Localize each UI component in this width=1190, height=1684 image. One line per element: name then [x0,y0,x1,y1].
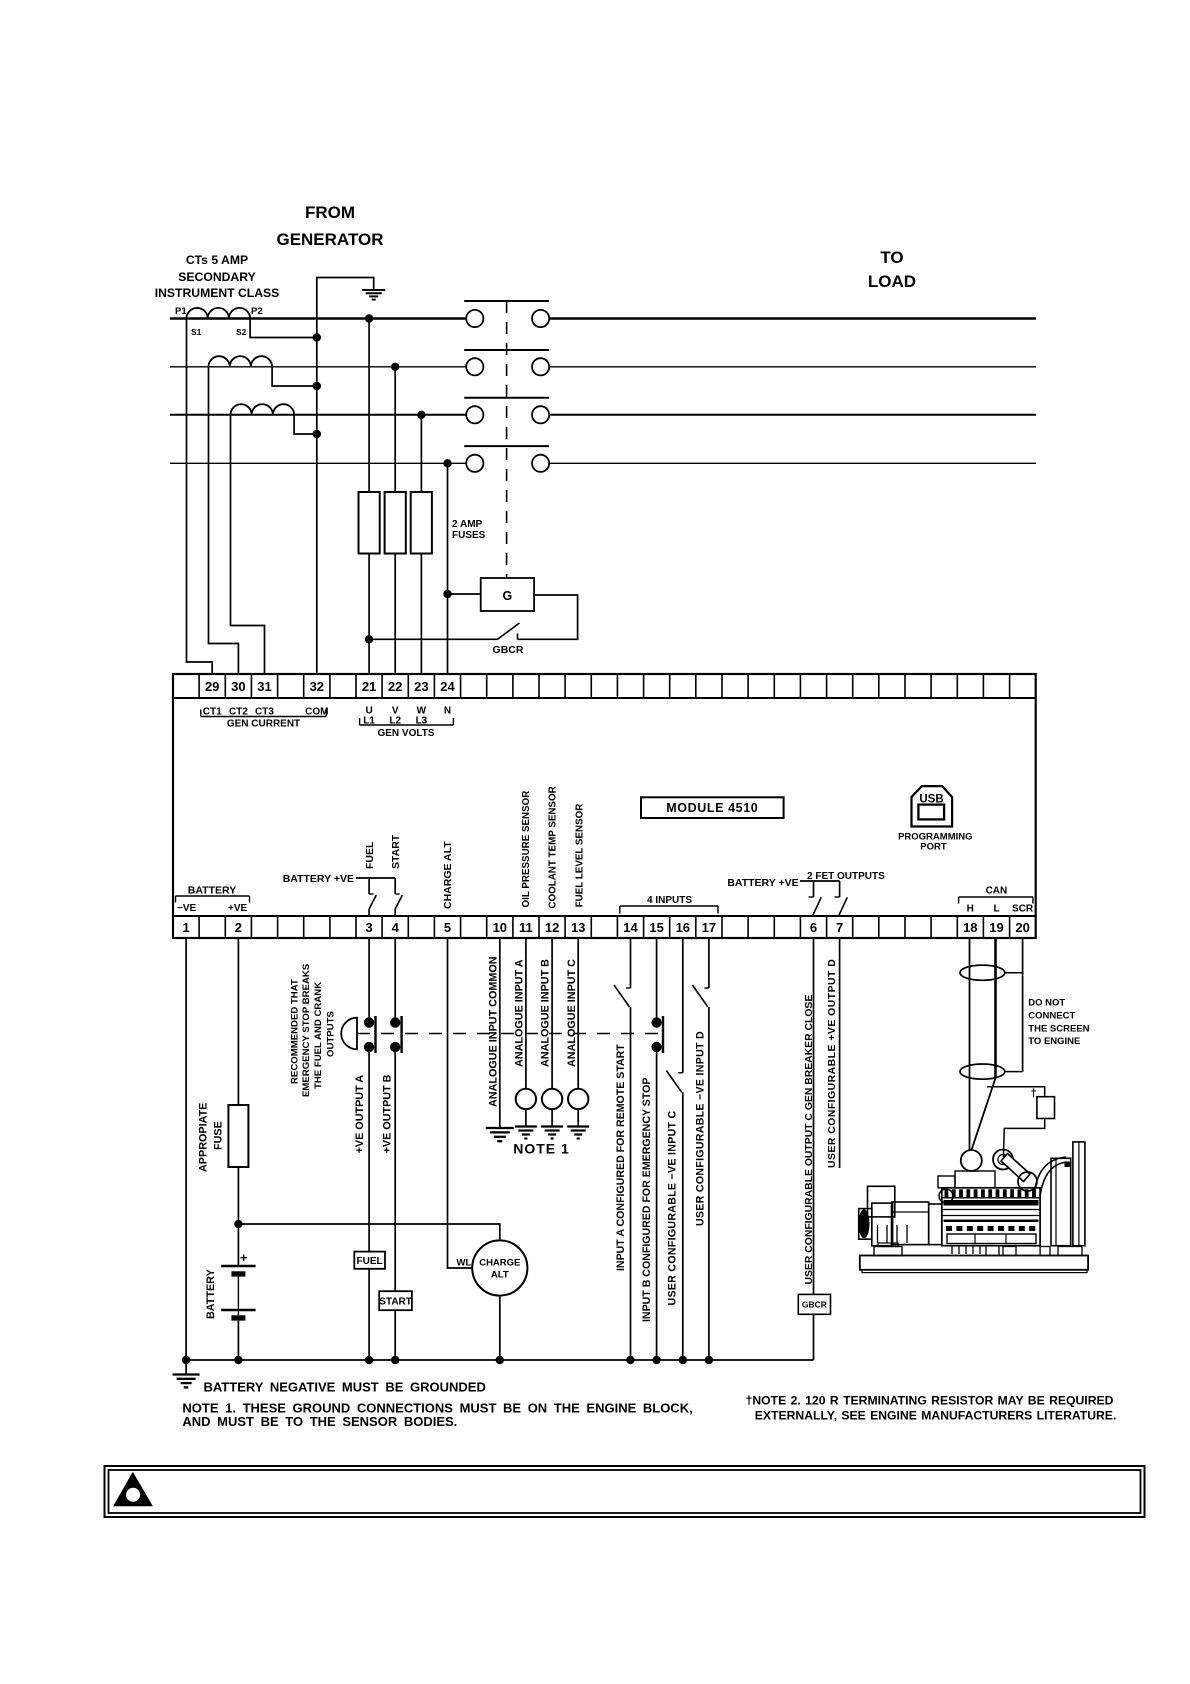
terminal 6 [810,920,817,935]
switch FET output 7 [835,897,848,916]
terminal 15 [649,920,663,935]
label DO NOT CONNECT THE SCREEN TO ENGINE [1028,998,1089,1047]
wire GBCR relay to bus [813,1314,815,1360]
wire terminal 13 analogue input C sensor [568,938,588,1127]
svg-text:P2: P2 [251,306,263,317]
svg-text:GBCR: GBCR [802,1300,827,1310]
label P2 [251,306,263,317]
wire CT1 S2 to COM [250,319,321,342]
fuse F3 2A [411,492,432,554]
module name box MODULE 4510 [641,797,784,818]
wire terminal 16 input C switch [666,938,683,1360]
wire terminal 6 to GBCR relay [813,938,815,1294]
bus line L2 left segment [170,366,466,368]
terminal 19 [989,920,1003,935]
terminal 21 [362,679,376,694]
label BATTERY bracket -VE +VE [176,885,250,915]
svg-text:FROM: FROM [305,203,355,222]
ground battery negative [173,1360,200,1387]
terminal 13 [571,920,585,935]
svg-text:FUSES: FUSES [452,530,486,541]
bracket GEN VOLTS [360,718,454,739]
label BATTERY vertical [205,1268,217,1319]
CT1 current transformer coil [187,308,251,319]
svg-text:12: 12 [545,920,559,935]
terminal 11 [519,920,533,935]
svg-text:START: START [379,1297,412,1308]
label +VE OUTPUT A vertical [354,1075,366,1154]
label INPUT A CONFIGURED FOR REMOTE START vertical [615,1044,627,1271]
ground earth symbol top [362,290,385,300]
svg-text:13: 13 [571,920,585,935]
bus line L3 left segment [170,414,466,416]
svg-text:WL: WL [457,1258,472,1269]
label CHARGE ALT vertical [442,841,454,909]
svg-text:TO ENGINE: TO ENGINE [1028,1036,1080,1047]
svg-text:4 INPUTS: 4 INPUTS [647,895,692,906]
labels U V W N and L1 L2 L3 [363,706,451,727]
terminal 1 [182,920,189,935]
label P1 [175,306,187,317]
svg-text:SCR: SCR [1012,904,1034,915]
svg-text:4: 4 [392,920,400,935]
svg-text:31: 31 [257,679,271,694]
bracket GEN CURRENT [201,710,327,730]
svg-text:GEN VOLTS: GEN VOLTS [377,728,434,739]
svg-text:30: 30 [231,679,245,694]
wire CT1 S1 to terminal 29 [187,319,213,675]
bracket 4 INPUTS [620,895,718,914]
svg-text:15: 15 [649,920,663,935]
circuit breaker linkage bars [464,301,549,446]
svg-text:L: L [993,904,999,915]
wire terminal 22 to L2 [391,363,399,674]
svg-text:2: 2 [235,920,242,935]
wire CT2 S2 to COM [272,367,321,390]
wire fuse to battery [234,1167,242,1266]
terminal 23 [414,679,428,694]
label FUEL LEVEL SENSOR [574,804,585,908]
label TO LOAD [868,248,916,291]
svg-text:18: 18 [963,920,977,935]
circuit breaker dashed linkage [506,301,508,578]
twisted pair loop upper [960,965,1005,980]
svg-text:14: 14 [623,920,638,935]
switch FUEL output contact [369,894,376,916]
svg-text:FUSE: FUSE [212,1121,224,1150]
label S2 [236,327,247,337]
svg-text:22: 22 [388,679,402,694]
svg-text:COOLANT TEMP SENSOR: COOLANT TEMP SENSOR [548,786,559,908]
ground sensor C [567,1127,589,1139]
label CTs 5 AMP SECONDARY INSTRUMENT CLASS [155,253,280,300]
component CHARGE ALT warning lamp [472,1240,527,1295]
svg-text:+: + [240,1251,247,1265]
svg-text:NOTE 1: NOTE 1 [513,1141,570,1157]
wire terminal 24 to N [443,459,451,674]
label BATTERY +VE fuel start [283,873,354,885]
terminal 7 [836,920,843,935]
svg-text:GEN CURRENT: GEN CURRENT [227,719,300,730]
label COOLANT TEMP SENSOR [548,786,559,908]
ground sensor A [515,1127,537,1139]
fuse F2 2A [385,492,406,554]
wire terminal 12 analogue input B sensor [542,938,562,1127]
component FUEL solenoid box [354,1252,385,1269]
ground analogue common [486,1128,514,1141]
bus line L1 left segment [170,317,466,319]
warning box with triangle [105,1466,1145,1517]
switch FET output 6 [809,897,822,916]
svg-text:P1: P1 [175,306,187,317]
svg-text:†NOTE 2. 120 R TERMINATING RES: †NOTE 2. 120 R TERMINATING RESISTOR MAY … [746,1394,1114,1408]
label USER CONFIGURABLE OUTPUT C GEN BREAKER CLOSE vertical [804,995,815,1285]
twisted pair loop lower [960,1064,1005,1079]
svg-text:19: 19 [989,920,1003,935]
label RECOMMENDED THAT EMERGENCY STOP BREAKS THE FUEL AND CRANK OUTPUTS [290,963,337,1097]
breaker pole contacts line L1 [466,310,549,327]
terminal 24 [440,679,455,694]
wire terminal 23 to L3 [417,411,425,674]
svg-text:PORT: PORT [920,842,947,853]
label FUEL vertical [364,841,376,869]
svg-text:29: 29 [205,679,219,694]
svg-text:FUEL: FUEL [364,841,376,869]
wire CT3 S1 to terminal 31 [231,415,265,674]
wire CT3 S2 to COM [294,415,321,438]
label USER CONFIGURABLE +VE OUTPUT D vertical [827,959,838,1168]
svg-text:16: 16 [676,920,690,935]
svg-text:ALT: ALT [491,1270,509,1281]
terminal 30 [231,679,245,694]
terminal 2 [235,920,242,935]
svg-text:FUEL: FUEL [357,1256,383,1267]
svg-text:10: 10 [493,920,507,935]
wire terminal 21 to L1 [365,314,373,674]
svg-text:CHARGE: CHARGE [479,1258,520,1269]
wire battery to bus [237,1321,239,1360]
svg-text:DO NOT: DO NOT [1028,998,1065,1009]
terminal 14 [623,920,638,935]
svg-text:CAN: CAN [986,886,1008,897]
svg-text:APPROPIATE: APPROPIATE [197,1103,209,1172]
label APPROPIATE FUSE vertical [197,1103,224,1172]
wire terminal 3 with e-stop contact and FUEL solenoid [364,938,376,1252]
label INPUT B CONFIGURED FOR EMERGENCY STOP vertical [641,1078,653,1322]
component START solenoid box [379,1291,412,1310]
wire FUEL box to bus [368,1269,370,1360]
svg-text:G: G [503,589,513,603]
svg-text:THE SCREEN: THE SCREEN [1028,1024,1089,1035]
svg-text:S2: S2 [236,327,247,337]
svg-text:BATTERY +VE: BATTERY +VE [283,873,354,885]
svg-text:CONNECT: CONNECT [1028,1011,1075,1022]
svg-text:INSTRUMENT CLASS: INSTRUMENT CLASS [155,286,280,300]
wire terminal 5 to charge alt WL [448,938,473,1269]
terminal 10 [493,920,507,935]
label PROGRAMMING PORT [898,832,972,853]
svg-text:+VE OUTPUT A: +VE OUTPUT A [354,1075,366,1154]
bus line L2 right segment [549,366,1036,368]
svg-text:6: 6 [810,920,817,935]
svg-text:2 AMP: 2 AMP [452,519,483,530]
bracket CAN H L SCR [959,886,1034,915]
terminal 12 [545,920,559,935]
svg-text:†: † [1031,1088,1037,1100]
wire COM terminal 32 to earth [317,278,374,675]
wire G coil to GBCR contact [518,595,578,639]
svg-text:BATTERY: BATTERY [188,885,236,897]
bus line N left segment [170,462,466,464]
svg-text:EXTERNALLY, SEE ENGINE MANUFAC: EXTERNALLY, SEE ENGINE MANUFACTURERS LIT… [755,1409,1117,1423]
svg-text:OUTPUTS: OUTPUTS [326,1011,337,1057]
contact GBCR blade [498,623,520,639]
labels CT1 CT2 CT3 COM [203,707,329,718]
wire terminal 15 emergency stop contact [651,938,663,1360]
CT3 current transformer coil [231,404,295,415]
wire battery positive feed to charge alt [238,1224,499,1240]
svg-text:BATTERY: BATTERY [205,1268,217,1319]
wire terminal 19 CAN L to engine [972,938,996,1150]
svg-text:17: 17 [702,920,716,935]
terminal 31 [257,679,271,694]
USB programming port icon [912,786,953,826]
wire terminal 4 with e-stop contact and START solenoid [390,938,402,1291]
terminal 32 [310,679,324,694]
wire CT2 S1 to terminal 30 [209,367,239,674]
emergency stop pushbutton dome [341,1018,357,1050]
svg-text:32: 32 [310,679,324,694]
svg-text:3: 3 [365,920,372,935]
svg-text:RECOMMENDED THAT: RECOMMENDED THAT [290,979,301,1084]
svg-text:BATTERY +VE: BATTERY +VE [727,877,798,889]
svg-text:OIL PRESSURE SENSOR: OIL PRESSURE SENSOR [521,791,532,908]
terminal 3 [365,920,372,935]
svg-text:EMERGENCY STOP BREAKS: EMERGENCY STOP BREAKS [301,963,312,1097]
label ANALOGUE INPUT B vertical [540,959,552,1067]
svg-text:USER CONFIGURABLE −VE INPUT C: USER CONFIGURABLE −VE INPUT C [666,1110,678,1305]
battery cells [221,1251,255,1321]
svg-text:GBCR: GBCR [493,644,524,656]
bus line L3 right segment [549,414,1036,416]
svg-text:CHARGE ALT: CHARGE ALT [442,841,454,909]
svg-text:1: 1 [182,920,189,935]
breaker pole contacts line N [466,455,549,472]
svg-text:5: 5 [444,920,451,935]
wire charge alt to bus [499,1296,501,1360]
svg-text:AND MUST BE TO THE SENSOR BODI: AND MUST BE TO THE SENSOR BODIES. [182,1414,457,1429]
label ANALOGUE INPUT A vertical [514,959,526,1067]
wire terminal 2 to fuse [237,938,239,1105]
wire START box to bus [394,1310,396,1360]
CT2 current transformer coil [209,356,273,367]
svg-text:TO: TO [880,248,903,267]
label OIL PRESSURE SENSOR [521,791,532,908]
wire battery +ve to fet switches [800,881,840,897]
ground sensor B [541,1127,563,1139]
svg-text:LOAD: LOAD [868,272,916,291]
breaker pole contacts line L3 [466,406,549,423]
terminal strip cell dividers top [199,674,1010,698]
battery negative bus wire [182,1356,814,1364]
terminal 17 [702,920,716,935]
svg-text:24: 24 [440,679,455,694]
svg-text:+VE OUTPUT B: +VE OUTPUT B [381,1074,393,1153]
label ANALOGUE INPUT C vertical [566,959,578,1067]
fuse appropriate [228,1105,248,1167]
label USER CONFIGURABLE -VE INPUT C vertical [666,1110,678,1305]
svg-text:23: 23 [414,679,428,694]
wire terminal 20 CAN screen [1005,938,1023,1072]
svg-text:ANALOGUE INPUT C: ANALOGUE INPUT C [566,959,578,1067]
svg-text:N: N [444,706,451,717]
svg-text:S1: S1 [191,327,202,337]
svg-text:−VE: −VE [177,903,197,914]
svg-text:INPUT B CONFIGURED FOR EMERGEN: INPUT B CONFIGURED FOR EMERGENCY STOP [641,1078,653,1322]
wire terminal 1 to battery negative bus [185,938,187,1360]
wire battery +ve to fuel start switches [356,878,395,894]
label S1 [191,327,202,337]
label FROM GENERATOR [276,203,383,249]
svg-text:THE FUEL AND CRANK: THE FUEL AND CRANK [313,982,324,1089]
svg-text:SECONDARY: SECONDARY [178,270,255,284]
label GBCR [493,644,524,656]
terminal 18 [963,920,977,935]
svg-text:+VE: +VE [228,903,248,914]
wire terminal 7 output D [839,938,841,1168]
bus line L1 right segment [549,317,1036,319]
relay box GBCR [798,1294,830,1314]
breaker pole contacts line L2 [466,358,549,375]
label BATTERY +VE fet outputs [727,877,798,889]
terminal 20 [1015,920,1029,935]
label NOTE 1 ground connections [182,1401,692,1430]
label BATTERY NEGATIVE MUST BE GROUNDED [204,1380,486,1395]
label 2 FET OUTPUTS [807,871,885,882]
wire terminal 17 input D switch [692,938,709,1360]
label +VE OUTPUT B vertical [381,1074,393,1153]
terminal 4 [392,920,400,935]
svg-text:ANALOGUE INPUT A: ANALOGUE INPUT A [514,959,526,1067]
svg-text:H: H [967,904,974,915]
label 2 AMP FUSES [452,519,486,541]
terminal 22 [388,679,402,694]
svg-text:GENERATOR: GENERATOR [276,230,383,249]
bus line N right segment [549,462,1036,464]
terminal 5 [444,920,451,935]
emergency stop dashed linkage [357,1033,663,1035]
fuse F1 2A [359,492,380,554]
terminating resistor T 120R [987,1087,1055,1157]
wire N to G coil [443,590,480,598]
svg-text:START: START [390,834,402,869]
svg-text:7: 7 [836,920,843,935]
svg-text:BATTERY NEGATIVE MUST BE GROUN: BATTERY NEGATIVE MUST BE GROUNDED [204,1380,486,1395]
svg-text:USER CONFIGURABLE +VE OUTPUT D: USER CONFIGURABLE +VE OUTPUT D [827,959,838,1168]
wire terminal 11 analogue input A sensor [516,938,536,1127]
label ANALOGUE INPUT COMMON vertical [488,956,500,1107]
label USER CONFIGURABLE -VE INPUT D vertical [695,1031,707,1226]
switch START output contact [395,894,402,916]
svg-text:20: 20 [1015,920,1029,935]
wire GBCR to terminal 21 wire [365,635,498,643]
svg-text:21: 21 [362,679,376,694]
wire terminal 14 remote start switch [614,938,631,1360]
svg-text:USER CONFIGURABLE −VE INPUT D: USER CONFIGURABLE −VE INPUT D [695,1031,707,1226]
terminal strip cell dividers bottom [199,916,1010,938]
label NOTE 2 terminating resistor [746,1394,1117,1423]
label NOTE 1 [513,1141,570,1157]
wire terminal 18 CAN H to engine [969,938,971,1150]
svg-text:ANALOGUE INPUT COMMON: ANALOGUE INPUT COMMON [488,956,500,1107]
label START vertical [390,834,402,869]
svg-text:FUEL LEVEL SENSOR: FUEL LEVEL SENSOR [574,804,585,908]
terminal 16 [676,920,690,935]
relay coil G [481,578,534,611]
module 4510 outline [173,674,1036,938]
wire terminal 10 analogue input common to ground [499,938,501,1128]
terminal 29 [205,679,219,694]
svg-text:INPUT A CONFIGURED FOR REMOTE: INPUT A CONFIGURED FOR REMOTE START [615,1044,627,1271]
svg-text:CTs 5 AMP: CTs 5 AMP [186,253,248,267]
generator set engine drawing [859,1142,1089,1273]
svg-text:ANALOGUE INPUT B: ANALOGUE INPUT B [540,959,552,1067]
svg-text:11: 11 [519,920,533,935]
svg-text:MODULE 4510: MODULE 4510 [666,801,758,815]
svg-text:USER CONFIGURABLE OUTPUT C GEN: USER CONFIGURABLE OUTPUT C GEN BREAKER C… [804,995,815,1285]
